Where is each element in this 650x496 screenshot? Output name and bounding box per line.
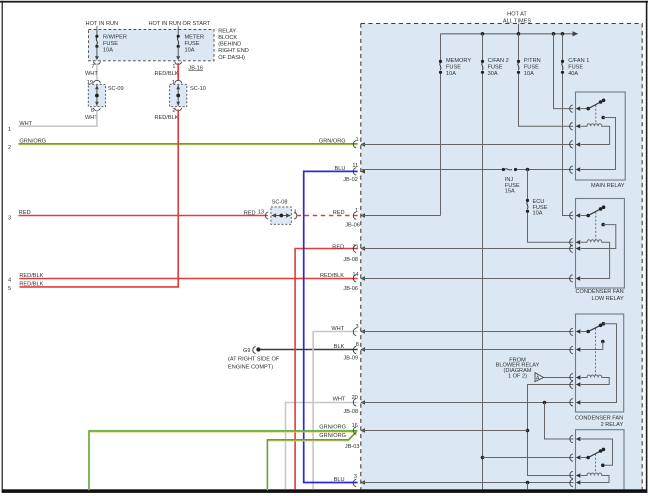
svg-text:C/FAN 1: C/FAN 1 xyxy=(568,58,589,64)
bus continuation arrow xyxy=(573,31,579,36)
relay block JB-16 (behind right end of dash) xyxy=(89,30,215,61)
node bus/C-FAN1 xyxy=(561,32,565,36)
svg-text:WHT: WHT xyxy=(333,397,346,403)
JB-08 entry WHT pin 20 xyxy=(333,395,365,415)
svg-text:FUSE: FUSE xyxy=(185,41,200,47)
svg-text:BLU: BLU xyxy=(334,477,345,483)
frame border left xyxy=(2,1,3,490)
svg-text:2: 2 xyxy=(172,108,175,114)
svg-text:40A: 40A xyxy=(568,71,578,77)
label RELAY BLOCK (BEHIND RIGHT END OF DASH) xyxy=(218,28,249,60)
svg-text:METER: METER xyxy=(185,34,205,40)
svg-text:BLK: BLK xyxy=(334,344,345,350)
wire 2 GRN/ORG row xyxy=(19,143,358,146)
main relay pin2 connector xyxy=(570,123,573,130)
bottom relay switch arm xyxy=(581,457,588,459)
svg-text:RED/BLK: RED/BLK xyxy=(155,115,179,121)
svg-text:RED/BLK: RED/BLK xyxy=(155,71,179,77)
low relay switch arm xyxy=(581,215,589,217)
main relay coil xyxy=(581,124,602,127)
low relay actuator dashed link xyxy=(595,212,597,240)
svg-text:14: 14 xyxy=(352,272,358,278)
svg-text:JB-06: JB-06 xyxy=(343,286,358,292)
wire link from title to bus xyxy=(518,24,520,34)
frame border top xyxy=(0,1,648,3)
svg-text:21: 21 xyxy=(352,244,358,250)
svg-text:WHT: WHT xyxy=(85,71,98,77)
fan2 relay pin4 connector xyxy=(570,381,573,388)
wire C/FAN1 fuse column to low relay pin1 xyxy=(563,34,574,216)
wire RED branch to JB-08 pin 21 xyxy=(295,249,358,490)
svg-text:RED: RED xyxy=(19,210,31,216)
fan2 relay pin5 connector xyxy=(570,399,573,406)
main relay pin4 connector xyxy=(570,166,573,173)
wire GRN/ORG 2 bottom loop xyxy=(267,432,356,491)
fan2 relay switch arm xyxy=(581,331,588,333)
fuse C/FAN1 40A xyxy=(561,58,589,77)
wire RED JB-06 row to MEMORY fuse xyxy=(362,215,441,217)
wire WHT from JB-16 pin7 to SC-09 xyxy=(96,63,98,80)
svg-text:JB-02: JB-02 xyxy=(343,177,358,183)
wire C/FAN2 fuse column (to bottom relay pin2 and off bottom) xyxy=(482,34,484,490)
svg-text:1: 1 xyxy=(355,137,358,143)
svg-text:GRN/ORG: GRN/ORG xyxy=(319,138,346,144)
svg-text:RIGHT END: RIGHT END xyxy=(218,48,249,54)
low relay pin3 connector xyxy=(570,245,573,252)
hot at all times box dashed border xyxy=(361,24,642,490)
bottom relay pin4 connector xyxy=(570,479,573,486)
main relay switch arm xyxy=(581,108,589,110)
svg-text:19: 19 xyxy=(87,80,93,86)
wire BLU 3 row to bottom relay pin4 xyxy=(362,482,573,484)
fan2 relay pin3 connector xyxy=(570,373,573,380)
svg-text:ALL TIMES: ALL TIMES xyxy=(503,19,532,25)
wire GRN/ORG 16 row xyxy=(362,430,528,432)
label HOT AT ALL TIMES xyxy=(503,12,532,25)
svg-text:FUSE: FUSE xyxy=(488,65,503,71)
fuse R/WIPER 10A xyxy=(95,30,127,58)
main relay actuator dashed link xyxy=(595,105,597,124)
wire BLU column JB-02 pin 11 down to JB-03 pin 3 xyxy=(304,171,358,482)
svg-text:C/FAN 2: C/FAN 2 xyxy=(488,58,509,64)
svg-text:FUSE: FUSE xyxy=(446,65,461,71)
fan2 relay NC contact to pin2 xyxy=(601,340,605,344)
JB-16 pin 7 exit arrow xyxy=(91,56,100,70)
low relay pin1 connector xyxy=(570,212,573,219)
hot at all times fuse/relay box fill xyxy=(361,24,642,490)
low relay fixed contact to pin3 xyxy=(601,223,605,227)
fan2 relay coil- to pin4 xyxy=(581,378,609,385)
wire branch to bottom relay pin1 xyxy=(545,403,574,440)
fan2 relay coil xyxy=(581,375,602,378)
svg-text:CONDENSER FAN: CONDENSER FAN xyxy=(575,415,623,421)
svg-text:P/TRN: P/TRN xyxy=(524,58,541,64)
wire P/TRN fuse column to main relay pin2 xyxy=(519,34,574,126)
svg-text:15A: 15A xyxy=(505,188,515,194)
svg-text:RED/BLK: RED/BLK xyxy=(19,282,43,288)
node BLU row stub xyxy=(526,481,530,485)
wire stub off bottom xyxy=(527,483,529,490)
svg-text:RED/BLK: RED/BLK xyxy=(19,273,43,279)
svg-text:1: 1 xyxy=(172,64,175,70)
svg-text:10A: 10A xyxy=(103,48,113,54)
svg-text:3: 3 xyxy=(354,474,357,480)
svg-text:SC-09: SC-09 xyxy=(108,86,124,92)
svg-text:BLU: BLU xyxy=(335,166,346,172)
fan2 relay NO contact loop to pin5 xyxy=(581,324,617,403)
svg-text:GRN/ORG: GRN/ORG xyxy=(19,139,46,145)
svg-text:ENGINE COMPT): ENGINE COMPT) xyxy=(228,364,273,370)
svg-text:30A: 30A xyxy=(488,71,498,77)
low relay box xyxy=(576,199,625,289)
svg-text:10A: 10A xyxy=(533,210,543,216)
svg-text:WHT: WHT xyxy=(19,121,32,127)
low relay pin2 connector xyxy=(570,239,573,246)
frame border right xyxy=(646,1,648,490)
wire fan2 coil- loop to grn/org row and bottom relay pin3 xyxy=(528,385,574,476)
svg-text:WHT: WHT xyxy=(331,326,344,332)
main relay pin3 connector xyxy=(570,141,573,148)
svg-text:HOT IN RUN OR START: HOT IN RUN OR START xyxy=(148,21,210,27)
wire WHT branch to JB-09 pin 3 xyxy=(313,332,358,490)
wire WHT 3 row to fan2 relay pin1 xyxy=(362,331,573,333)
wire BLU row to INJ fuse and main relay pin4 xyxy=(362,169,573,171)
connector SC-10 xyxy=(170,80,206,114)
wire RED/BLK vertical SC-10 down to wire 5 xyxy=(177,109,179,287)
svg-text:JB-08: JB-08 xyxy=(343,257,358,263)
node BLU row / ECU fuse branch xyxy=(526,168,530,172)
svg-text:HOT IN RUN: HOT IN RUN xyxy=(86,21,119,27)
fuse METER 10A xyxy=(177,30,204,58)
frame border bottom bar xyxy=(2,489,648,493)
svg-text:MAIN RELAY: MAIN RELAY xyxy=(591,183,625,189)
svg-text:JB-08: JB-08 xyxy=(344,409,359,415)
fuse MEMORY 10A xyxy=(439,58,471,77)
ground G9 xyxy=(228,347,280,371)
JB-08 entry RED pin 21 xyxy=(332,244,365,263)
node fan2 coil- / GRN-ORG 16 row xyxy=(526,429,530,433)
bottom relay pin3 connector xyxy=(570,471,573,478)
svg-text:10A: 10A xyxy=(446,71,456,77)
svg-text:JB-06: JB-06 xyxy=(345,222,360,228)
bottom relay coil xyxy=(581,473,602,476)
svg-text:10A: 10A xyxy=(524,71,534,77)
svg-text:2: 2 xyxy=(8,145,11,151)
wire RED JB-08 21 row to low relay pin3 xyxy=(362,248,573,250)
svg-text:1: 1 xyxy=(8,127,11,133)
svg-text:FUSE: FUSE xyxy=(568,65,583,71)
wire 5 RED/BLK row xyxy=(19,286,179,288)
svg-text:LOW RELAY: LOW RELAY xyxy=(591,296,623,302)
node WHT20 row / bottom relay pin1 branch xyxy=(543,401,547,405)
svg-text:GRN/ORG: GRN/ORG xyxy=(319,425,346,431)
main relay coil- to pin3 xyxy=(581,126,610,144)
label FROM BLOWER RELAY (DIAGRAM 1 OF 2) xyxy=(496,358,540,380)
main relay fixed contact to pin4 xyxy=(601,116,605,120)
svg-text:CONDENSER FAN: CONDENSER FAN xyxy=(576,289,624,295)
node bus/C-FAN2 xyxy=(481,32,485,36)
svg-text:1: 1 xyxy=(172,80,175,86)
svg-text:20: 20 xyxy=(352,395,358,401)
JB-16 pin 1 exit arrow xyxy=(172,56,181,70)
svg-text:3: 3 xyxy=(8,216,11,222)
wire MEMORY fuse column xyxy=(440,34,442,216)
connector SC-08 xyxy=(265,200,296,225)
svg-text:RED: RED xyxy=(332,244,344,250)
wire GRN/ORG 1 bottom left loop xyxy=(89,431,357,491)
wire BLK G9 to JB-09 pin 8 xyxy=(260,349,357,351)
node C/FAN2 column / bottom relay pin2 xyxy=(481,456,485,460)
connector SC-09 xyxy=(87,80,124,114)
svg-text:JB-03: JB-03 xyxy=(345,444,360,450)
svg-text:1 OF 2): 1 OF 2) xyxy=(508,374,527,380)
fuse C/FAN2 30A xyxy=(481,58,509,77)
low relay coil xyxy=(581,240,602,243)
fan2 relay pin2 connector xyxy=(570,346,573,353)
svg-text:(AT RIGHT SIDE OF: (AT RIGHT SIDE OF xyxy=(228,357,280,363)
op MAIN RELAY U1 xyxy=(570,92,626,189)
svg-text:G9: G9 xyxy=(243,348,250,354)
bottom relay pin1 connector xyxy=(570,435,573,442)
wire RED/BLK 14 row to low relay pin4 xyxy=(362,278,573,280)
svg-text:GRN/ORG: GRN/ORG xyxy=(319,433,346,439)
node bus/P-TRN xyxy=(517,32,521,36)
wire WHT branch to JB-08 pin 20 xyxy=(286,403,358,490)
svg-text:SC-10: SC-10 xyxy=(190,86,206,92)
svg-text:11: 11 xyxy=(352,163,358,169)
wire 4 RED/BLK row xyxy=(19,278,357,280)
JB-06 entry RED/BLK pin 14 xyxy=(320,272,365,292)
svg-text:RED: RED xyxy=(333,210,345,216)
wire top bus B+ xyxy=(441,33,574,35)
op CONDENSER FAN HIGH RELAY U4 (bottom, cut off) xyxy=(570,430,624,490)
JB-06 entry RED pin 1 xyxy=(353,212,365,219)
bottom relay coil- to pin4 xyxy=(581,476,609,483)
svg-text:(BEHIND: (BEHIND xyxy=(218,42,241,48)
svg-text:RED: RED xyxy=(244,210,256,216)
svg-text:4: 4 xyxy=(8,278,11,284)
svg-text:MEMORY: MEMORY xyxy=(446,58,471,64)
wire ECU fuse column to low relay pin2 xyxy=(528,170,574,243)
fan2 relay box xyxy=(576,314,624,412)
wire WHT SC-09 to row 1 xyxy=(19,109,97,126)
wire main relay feed column bus to pin1 xyxy=(554,34,574,109)
op CONDENSER FAN 2 RELAY U3 xyxy=(570,314,624,428)
svg-text:RED/BLK: RED/BLK xyxy=(320,273,344,279)
wire RED/BLK from JB-16 pin1 to SC-10 xyxy=(177,63,179,80)
wire RED dashed SC-08 to JB-06 xyxy=(297,215,358,217)
fuse ECU 10A xyxy=(526,199,548,217)
svg-text:1: 1 xyxy=(294,210,297,216)
bottom relay pin2 connector xyxy=(570,454,573,461)
main relay pin1 connector xyxy=(570,105,573,112)
fuse P/TRN 10A xyxy=(517,58,541,77)
wire BLK 8 row to fan2 relay pin2 xyxy=(362,349,573,351)
svg-text:JB-09: JB-09 xyxy=(344,356,359,362)
main relay box xyxy=(576,92,626,180)
JB-03 entry BLU pin 3 xyxy=(334,474,365,487)
svg-text:FUSE: FUSE xyxy=(524,65,539,71)
svg-text:RELAY: RELAY xyxy=(218,28,236,34)
svg-text:1: 1 xyxy=(355,208,358,214)
svg-text:R/WIPER: R/WIPER xyxy=(103,34,127,40)
fan2 relay actuator dashed link xyxy=(595,328,597,375)
JB-02 entry BLU pin 11 xyxy=(335,163,366,183)
bottom relay box xyxy=(576,430,625,490)
svg-text:13: 13 xyxy=(258,210,264,216)
wire GRN/ORG row to main relay pin3 xyxy=(362,144,573,146)
low relay coil- to pin4 xyxy=(581,242,610,278)
JB entry GRN/ORG pin 1 (to main relay coil) xyxy=(353,137,365,148)
wire blower relay to fan2 relay pin3 xyxy=(544,377,574,379)
JB-09 entry BLK pin 8 xyxy=(334,342,365,361)
svg-text:7: 7 xyxy=(91,64,94,70)
bottom relay actuator dashed link xyxy=(595,454,597,473)
JB-03 entry GRN/ORG pin 16 xyxy=(319,423,365,450)
fuse INJ 15A xyxy=(502,168,520,195)
JB-09 entry WHT pin 3 xyxy=(331,324,365,336)
wire 3 RED row xyxy=(19,215,268,217)
svg-text:8: 8 xyxy=(356,342,359,348)
svg-text:16: 16 xyxy=(352,423,358,429)
wire to bottom relay pin2 xyxy=(483,457,574,459)
fan2 relay pin1 connector xyxy=(570,328,573,335)
svg-text:6: 6 xyxy=(91,108,94,114)
bottom relay pin1 wire to fixed contact xyxy=(581,439,613,465)
svg-text:FUSE: FUSE xyxy=(103,41,118,47)
svg-text:JB-16: JB-16 xyxy=(188,65,203,71)
svg-text:HOT AT: HOT AT xyxy=(507,12,527,18)
wire WHT 20 row to fan2 relay pin5 xyxy=(362,402,573,404)
svg-text:SC-08: SC-08 xyxy=(272,200,288,206)
svg-text:10A: 10A xyxy=(185,48,195,54)
svg-text:BLOCK: BLOCK xyxy=(218,35,237,41)
node bus/main relay feed xyxy=(552,32,556,36)
tick HOT IN RUN to box xyxy=(96,26,98,30)
svg-text:5: 5 xyxy=(8,286,11,292)
svg-text:2 RELAY: 2 RELAY xyxy=(601,422,624,428)
svg-text:3: 3 xyxy=(355,324,358,330)
svg-text:OF DASH): OF DASH) xyxy=(218,55,245,61)
low relay pin4 connector xyxy=(570,275,573,282)
op CONDENSER FAN LOW RELAY U2 xyxy=(570,199,625,302)
off-page triangle A from blower relay xyxy=(535,373,544,382)
